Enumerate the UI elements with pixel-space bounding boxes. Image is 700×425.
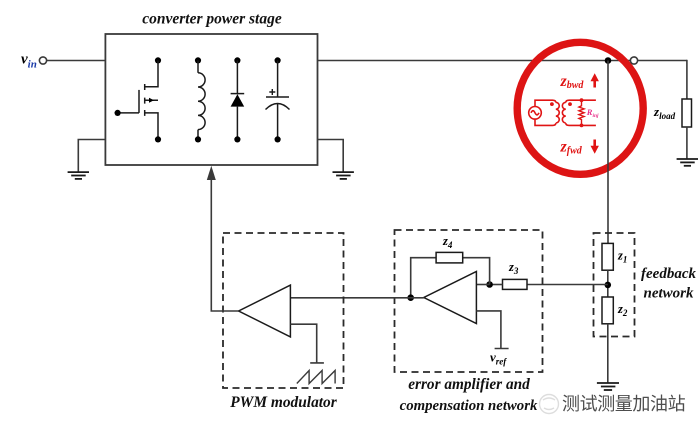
wire z3 to inverting input node xyxy=(490,284,503,286)
injection transformer (red) primary with source xyxy=(529,100,560,125)
svg-text:z3: z3 xyxy=(508,260,519,276)
wire z2 to ground xyxy=(607,324,609,383)
PWM modulator dashed box xyxy=(223,233,344,388)
resistor Zload xyxy=(682,99,692,127)
node error amp output junction xyxy=(407,294,414,301)
node vin input terminal xyxy=(39,57,46,64)
ground (feedback divider) xyxy=(597,383,619,390)
op-amp error amplifier xyxy=(424,272,477,324)
svg-text:converter power stage: converter power stage xyxy=(142,11,282,28)
svg-text:vref: vref xyxy=(490,350,507,367)
resistor Z3 xyxy=(503,279,528,289)
ground (input side) xyxy=(68,172,89,179)
wire z4 feedback path xyxy=(411,258,490,298)
svg-text:network: network xyxy=(643,286,694,302)
svg-text:zfwd: zfwd xyxy=(560,139,583,157)
wire vin terminal to power stage box xyxy=(47,60,106,62)
wire vref branch xyxy=(476,311,508,349)
feedback network dashed box xyxy=(594,233,635,337)
node inverting input junction xyxy=(486,281,493,288)
svg-text:compensation network: compensation network xyxy=(400,398,538,414)
svg-text:vin: vin xyxy=(21,52,37,71)
svg-text:PWM modulator: PWM modulator xyxy=(230,394,337,411)
svg-text:z2: z2 xyxy=(617,302,628,318)
svg-text:zbwd: zbwd xyxy=(560,73,585,91)
wire z1 to z2 xyxy=(607,270,609,297)
watermark logo xyxy=(540,395,559,414)
converter power stage box xyxy=(105,34,317,165)
ground (power stage output side) xyxy=(333,172,354,179)
wire PWM output to power stage xyxy=(211,176,238,311)
node output junction xyxy=(605,57,612,64)
wire inverting input to op-amp xyxy=(476,284,489,286)
wire output: box to load xyxy=(318,60,687,62)
transistor Q1 (power MOSFET) xyxy=(115,57,162,142)
svg-text:Rinj: Rinj xyxy=(586,107,599,119)
wire right ground from box xyxy=(318,140,344,173)
wire sawtooth input branch xyxy=(290,324,324,363)
injection transformer (red) secondary with Rinj xyxy=(562,98,596,127)
wire divider to z3 xyxy=(527,284,608,286)
ground (load) xyxy=(677,159,698,166)
resistor Z1 xyxy=(602,243,613,270)
inductor L1 xyxy=(195,57,205,142)
comparator (PWM) op-amp xyxy=(239,285,291,337)
svg-text:z4: z4 xyxy=(442,234,453,250)
svg-text:error amplifier and: error amplifier and xyxy=(408,376,530,393)
capacitor C1 xyxy=(266,57,290,142)
red highlight circle xyxy=(517,42,643,174)
resistor Z4 xyxy=(436,252,463,263)
svg-text:z1: z1 xyxy=(617,249,627,265)
node vout terminal xyxy=(630,57,637,64)
svg-text:zload: zload xyxy=(653,104,676,121)
sawtooth ramp symbol xyxy=(297,371,335,384)
svg-text:feedback: feedback xyxy=(641,266,696,282)
arrow into power stage xyxy=(207,166,216,180)
resistor Z2 xyxy=(602,297,613,324)
wire zload to ground xyxy=(686,127,688,159)
wire left ground from box xyxy=(78,140,105,173)
wire down to zload xyxy=(686,60,688,99)
error amplifier dashed box xyxy=(395,230,543,372)
diode D1 xyxy=(231,57,245,142)
wire error amp output to comparator input xyxy=(290,297,423,299)
svg-text:测试测量加油站: 测试测量加油站 xyxy=(562,394,686,414)
node divider junction xyxy=(605,282,612,289)
wire feedback sense line down xyxy=(607,61,609,244)
